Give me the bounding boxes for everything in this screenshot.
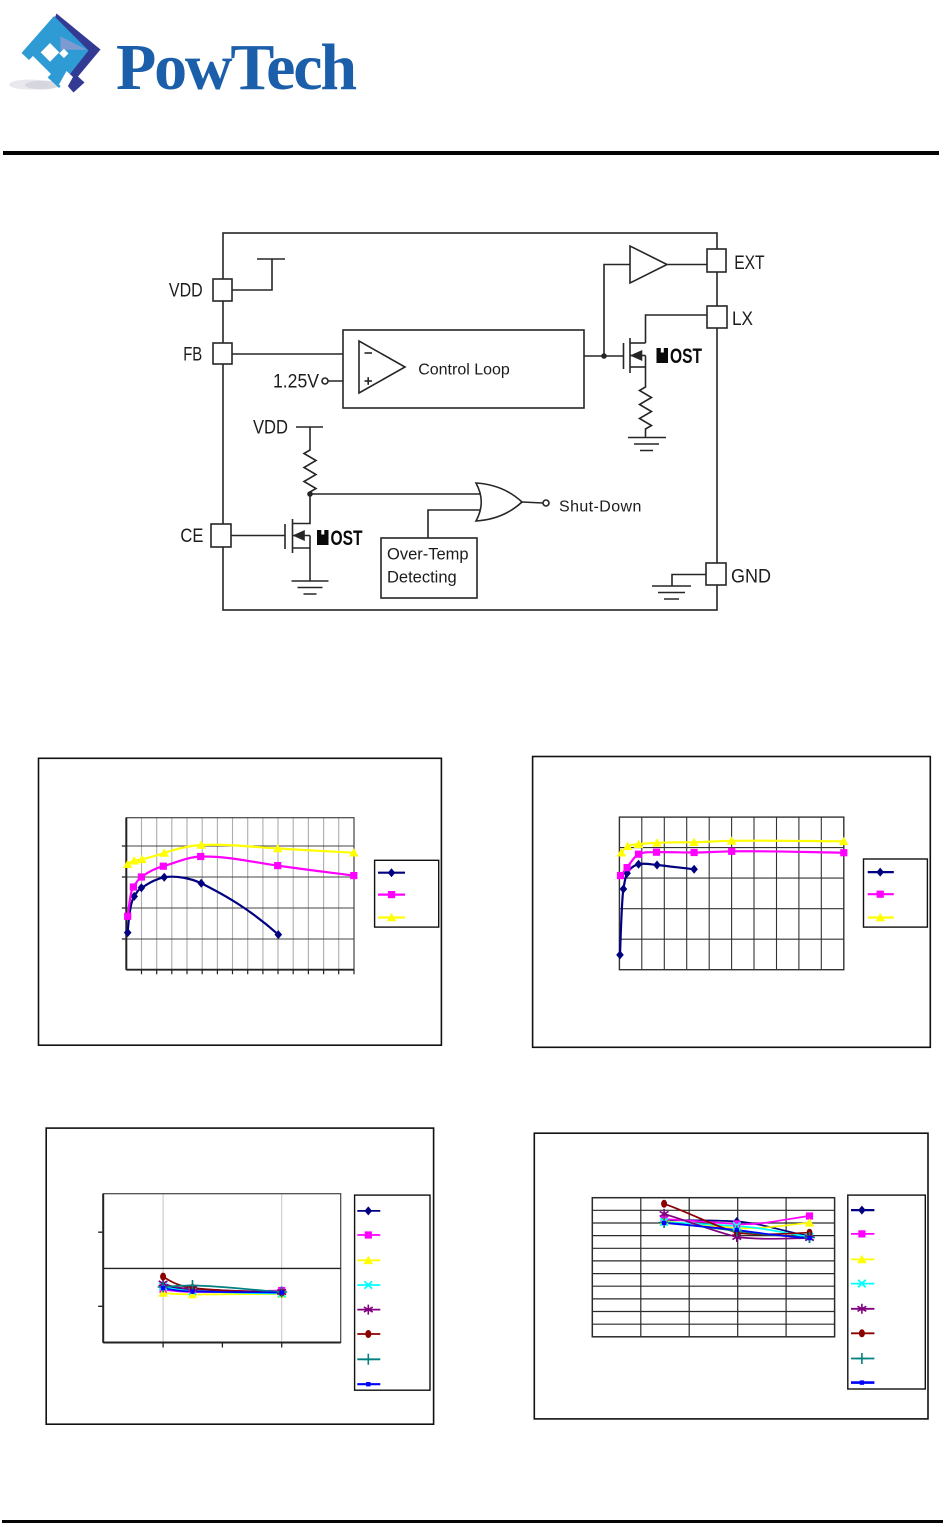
wire Q1 source to resistor <box>645 367 647 384</box>
wire FB to error amp <box>232 353 359 355</box>
pin pad GND <box>706 563 726 585</box>
logo facet triangle <box>61 37 88 50</box>
resistor R2 <box>304 447 316 494</box>
buffer amp U2 <box>630 246 667 283</box>
wire control loop output to gate <box>584 355 624 357</box>
logo dark diamond <box>40 14 101 93</box>
resistor R1 <box>640 384 652 437</box>
transistor MOST Q1 <box>623 343 625 369</box>
wire VDD pad to internal rail <box>232 259 272 290</box>
chart 3 legend <box>355 1195 430 1390</box>
op-amp U1 <box>359 341 405 393</box>
logo light diamond <box>22 16 89 88</box>
transistor MOST Q2 <box>284 524 286 549</box>
over-temp detecting box <box>381 538 477 598</box>
footer rule <box>2 1520 943 1523</box>
VDD rail bar <box>257 258 285 260</box>
header rule <box>3 151 939 155</box>
IC outer box <box>223 233 717 610</box>
wire node A down to Q2 drain <box>293 494 311 524</box>
chart 4 legend <box>848 1195 926 1389</box>
OR gate U3 <box>476 483 522 521</box>
node 1.25V terminal <box>322 378 328 384</box>
chart 4 series group <box>664 1204 809 1239</box>
node shut-down terminal <box>543 500 549 506</box>
chart 1 series magenta <box>128 856 354 916</box>
wire 1.25V to error amp <box>328 380 359 382</box>
wire node A to OR gate <box>310 493 484 495</box>
chart 2 plot area <box>619 817 843 970</box>
ground at GND pad <box>652 586 691 599</box>
chart 1 series yellow <box>128 845 354 864</box>
logo shadow <box>9 80 49 90</box>
chart 2 series yellow <box>621 841 843 853</box>
label MOST Q1 <box>657 348 669 363</box>
chart 1 series navy <box>128 877 279 935</box>
wire OR output to shut-down <box>522 502 543 503</box>
chart 1 plot area <box>122 818 354 975</box>
pin pad FB <box>213 343 232 364</box>
wire LX to MOST drain <box>646 315 708 343</box>
junction node A dot <box>307 491 313 497</box>
wire node to buffer <box>604 265 630 357</box>
chart 1 frame <box>39 758 442 1045</box>
chart 2 series navy <box>620 864 694 955</box>
ground under R1 <box>628 438 666 451</box>
pin pad VDD <box>213 279 232 301</box>
logo icon <box>0 0 947 160</box>
chart 2 frame <box>533 757 931 1048</box>
logo maze cutouts <box>41 43 60 62</box>
ground under Q2 <box>292 581 329 594</box>
chart 1 legend <box>375 860 439 927</box>
wire GND pad to ground <box>672 575 706 587</box>
pin pad CE <box>211 524 231 547</box>
wire buffer to EXT <box>667 264 707 266</box>
wire VDD rail to resistor R2 <box>296 426 323 428</box>
wire CE to Q2 gate <box>231 535 285 537</box>
pin pad LX <box>707 306 727 328</box>
chart 2 series magenta <box>621 851 844 875</box>
label MOST Q2 <box>317 530 329 545</box>
pin pad EXT <box>707 249 726 272</box>
chart 4 frame <box>534 1133 928 1419</box>
wire Q2 source to ground <box>309 548 311 581</box>
chart 4 plot area <box>592 1198 834 1337</box>
chart 3 frame <box>46 1128 433 1424</box>
junction node dot <box>601 353 607 359</box>
chart 3 series group <box>163 1277 282 1295</box>
control loop box <box>343 330 584 408</box>
wire over-temp to OR gate <box>428 510 484 538</box>
chart 3 plot area <box>98 1194 341 1348</box>
chart 2 legend <box>864 859 928 927</box>
block diagram <box>0 0 947 700</box>
